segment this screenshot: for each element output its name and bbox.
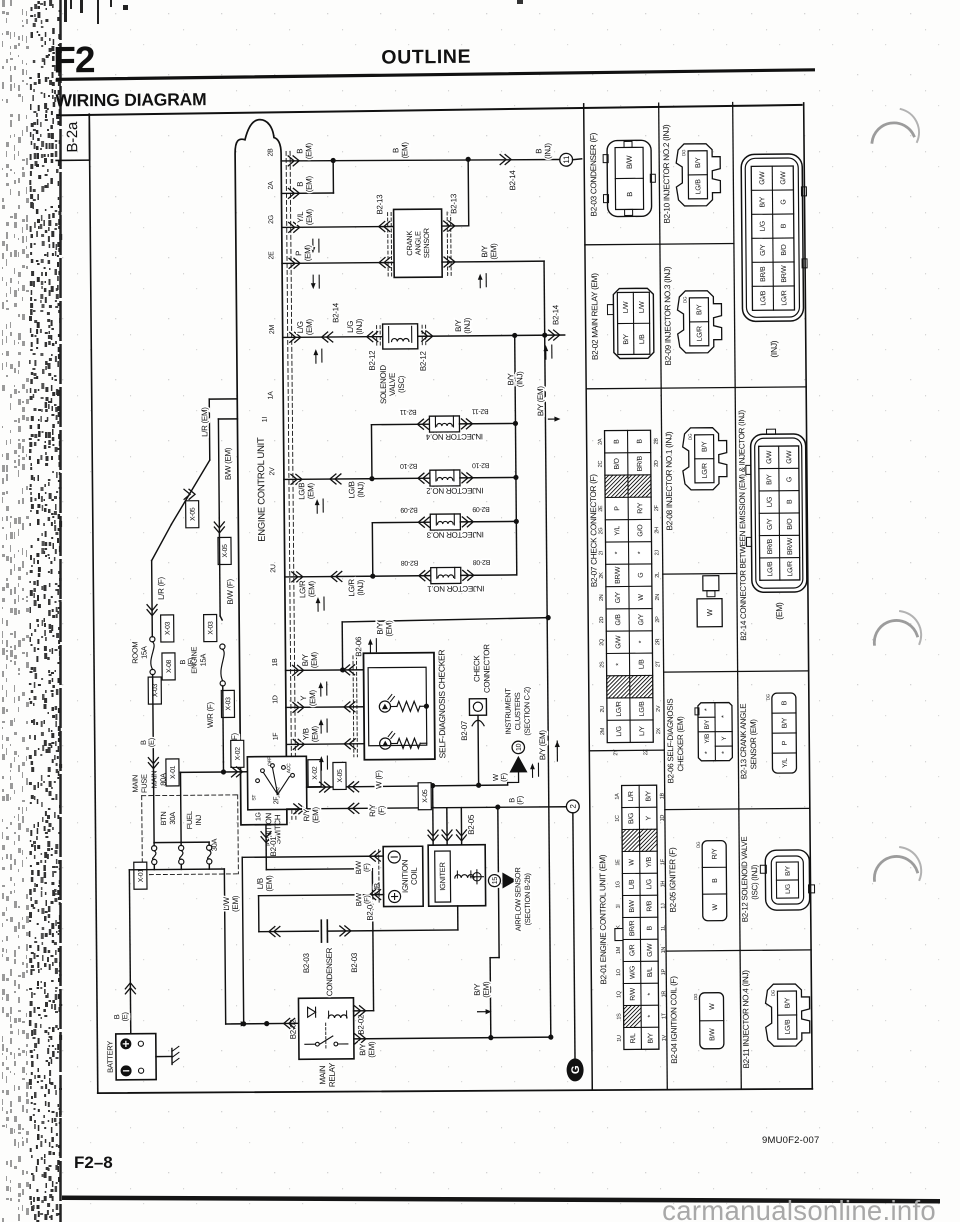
scan curl top right (872, 123, 914, 143)
wire into ignition switch (222, 762, 224, 772)
fuse ENGINE 15A (204, 615, 217, 642)
svg-text:R/Y: R/Y (712, 848, 719, 859)
svg-text:(INJ): (INJ) (543, 143, 552, 160)
resistor 1 (397, 701, 420, 711)
svg-text:MAIN: MAIN (131, 775, 140, 793)
legend big connector INJ (741, 154, 803, 322)
svg-text:B/Y (EM): B/Y (EM) (536, 386, 545, 417)
svg-text:(INJ): (INJ) (769, 340, 779, 357)
svg-text:CONNECTOR: CONNECTOR (482, 644, 491, 693)
svg-text:INJ: INJ (194, 814, 203, 825)
connector B2-13 left (387, 213, 390, 277)
svg-text:B/Y: B/Y (358, 1043, 367, 1056)
svg-text:(SECTION B-2b): (SECTION B-2b) (523, 872, 532, 925)
svg-text:1B: 1B (660, 792, 666, 799)
svg-text:X-05: X-05 (337, 769, 344, 783)
svg-text:B/O: B/O (614, 458, 621, 470)
svg-text:G/Y: G/Y (615, 591, 622, 603)
svg-text:1H: 1H (660, 881, 666, 888)
svg-text:(EM): (EM) (305, 318, 314, 335)
svg-text:FUEL: FUEL (185, 811, 194, 829)
self-diagnosis checker box (363, 653, 434, 760)
svg-text:B/Y: B/Y (702, 441, 709, 452)
svg-text:(INJ): (INJ) (463, 317, 472, 334)
svg-text:DG: DG (688, 433, 693, 440)
svg-text:CHECKER (EM): CHECKER (EM) (676, 716, 685, 772)
svg-text:DG: DG (681, 149, 686, 156)
svg-text:ST: ST (251, 795, 257, 801)
fuse bus wires (154, 841, 209, 843)
svg-text:B2-13: B2-13 (449, 193, 458, 214)
svg-text:(EM): (EM) (310, 725, 319, 742)
svg-text:W: W (638, 594, 645, 601)
wire bus B/Y(EM) right side (544, 261, 551, 1037)
fuse ROOM 15A (161, 615, 174, 642)
svg-text:2N: 2N (655, 594, 661, 601)
svg-text:G/W: G/W (759, 171, 766, 185)
svg-text:FUSE: FUSE (140, 774, 149, 793)
svg-text:1U: 1U (617, 1035, 623, 1042)
svg-text:1C: 1C (615, 815, 621, 822)
wire B/Y(EM) riser to top (341, 622, 343, 670)
svg-text:X-03: X-03 (208, 621, 215, 635)
wire B/Y(EM) from relay up (489, 958, 492, 1038)
svg-text:X-05: X-05 (422, 789, 429, 803)
LED 1 (379, 701, 390, 712)
svg-text:(E): (E) (147, 737, 156, 747)
wire 2E P(EM) (282, 261, 394, 264)
main relay (298, 998, 354, 1059)
svg-text:G/W: G/W (766, 450, 773, 464)
svg-text:1N: 1N (661, 947, 667, 954)
svg-text:(F): (F) (362, 863, 371, 873)
svg-text:1L: 1L (661, 925, 667, 931)
svg-text:L/B: L/B (639, 659, 646, 669)
svg-text:2G: 2G (268, 215, 275, 224)
svg-text:L/G: L/G (646, 879, 653, 889)
svg-text:B2-03: B2-03 (302, 952, 311, 973)
svg-text:B/Y: B/Y (782, 717, 789, 728)
svg-text:CLUSTERS: CLUSTERS (513, 692, 522, 730)
svg-text:L/B: L/B (256, 878, 265, 889)
wire W(F) from switch (307, 785, 508, 787)
injector no.4 (371, 423, 429, 426)
svg-text:B/W: B/W (709, 1028, 716, 1041)
svg-text:B2-11: B2-11 (400, 408, 417, 415)
svg-text:OUTLINE: OUTLINE (381, 46, 471, 69)
ECU connector dashed edge (286, 151, 292, 819)
svg-text:B2-07: B2-07 (460, 720, 469, 741)
wire igniter to condenser (457, 906, 459, 930)
svg-text:2D: 2D (599, 617, 605, 624)
svg-text:B: B (295, 149, 304, 154)
svg-text:(EM): (EM) (265, 875, 274, 892)
svg-text:B/Y: B/Y (301, 653, 310, 666)
svg-text:BR/W: BR/W (787, 537, 794, 555)
svg-text:L/B: L/B (639, 334, 646, 344)
svg-text:2Y: 2Y (613, 749, 619, 756)
svg-text:B/O: B/O (787, 518, 794, 530)
battery (116, 1034, 156, 1080)
svg-text:LG/B: LG/B (639, 701, 646, 716)
svg-text:1P: 1P (661, 968, 667, 975)
svg-text:LG/R: LG/R (616, 701, 623, 716)
svg-text:(INJ): (INJ) (356, 579, 365, 596)
svg-text:B: B (787, 499, 794, 504)
connector B2-04 (378, 850, 380, 903)
svg-text:L/W: L/W (639, 301, 646, 313)
svg-text:B2-14: B2-14 (331, 302, 340, 323)
resistor 2 (397, 738, 420, 748)
scan curl bottom right (874, 856, 917, 880)
svg-text:OFF: OFF (267, 757, 273, 766)
svg-text:(EM): (EM) (303, 244, 312, 261)
svg-text:B2-09: B2-09 (472, 505, 490, 512)
diagram frame right border (804, 103, 813, 1089)
svg-text:G/B: G/B (615, 614, 622, 626)
svg-text:L/B: L/B (629, 879, 636, 889)
svg-text:(EM): (EM) (308, 689, 317, 706)
svg-text:15A: 15A (139, 646, 148, 659)
svg-text:B2-08: B2-08 (473, 558, 491, 565)
svg-text:11: 11 (562, 155, 571, 164)
svg-text:B2-02 MAIN RELAY (EM): B2-02 MAIN RELAY (EM) (590, 273, 600, 360)
svg-text:(F): (F) (377, 805, 386, 815)
wire 2F R/Y (287, 806, 567, 809)
svg-text:L/G: L/G (767, 497, 774, 507)
svg-text:W: W (629, 859, 636, 866)
svg-text:R/W: R/W (630, 987, 637, 1000)
connector B2-06 (352, 656, 355, 757)
svg-text:COIL: COIL (410, 867, 419, 885)
svg-text:B/O: B/O (781, 244, 788, 256)
svg-text:L/R (EM): L/R (EM) (200, 407, 209, 437)
svg-text:B2-12: B2-12 (419, 350, 428, 371)
svg-text:B/Y: B/Y (480, 245, 489, 258)
svg-text:2B: 2B (267, 148, 274, 157)
svg-text:INJECTOR NO.1: INJECTOR NO.1 (427, 584, 485, 594)
svg-text:B2-07 CHECK CONNECTOR (F): B2-07 CHECK CONNECTOR (F) (589, 474, 599, 588)
svg-text:BR/R: BR/R (629, 920, 636, 936)
wire L/W(EM) to main relay (224, 869, 225, 1024)
connector B2-14 right (549, 330, 560, 340)
wire joint2 to ground (573, 813, 575, 1059)
svg-text:B2-14: B2-14 (508, 170, 517, 191)
svg-text:BR/W: BR/W (615, 566, 622, 584)
svg-text:B: B (647, 925, 654, 930)
svg-text:(EM): (EM) (231, 895, 240, 912)
svg-text:30A: 30A (168, 812, 177, 825)
svg-text:B2-10: B2-10 (472, 461, 490, 468)
svg-text:IGNITION: IGNITION (401, 859, 410, 893)
check connector (469, 699, 486, 716)
svg-text:BR/W: BR/W (781, 265, 788, 283)
B2-06 connector table (698, 703, 733, 761)
svg-text:L/G: L/G (296, 321, 305, 333)
svg-text:L/G: L/G (346, 321, 355, 333)
svg-text:2S: 2S (599, 661, 605, 668)
svg-text:Y/B: Y/B (301, 728, 310, 740)
svg-text:B-2a: B-2a (64, 121, 81, 153)
svg-text:L/G: L/G (785, 884, 792, 894)
igniter feeds (432, 786, 435, 845)
connector B2-13 right (446, 212, 449, 276)
svg-text:B: B (712, 878, 719, 883)
svg-text:P: P (614, 506, 621, 511)
svg-text:G: G (786, 477, 793, 482)
svg-text:B2-02: B2-02 (356, 1014, 365, 1035)
svg-text:15A: 15A (199, 654, 208, 667)
svg-text:G/W: G/W (786, 450, 793, 464)
svg-text:(EM): (EM) (400, 142, 409, 159)
wire 2M L/G (283, 335, 565, 337)
svg-text:WIRING DIAGRAM: WIRING DIAGRAM (56, 89, 207, 110)
svg-text:INJECTOR NO.2: INJECTOR NO.2 (426, 486, 484, 496)
svg-text:2X: 2X (656, 727, 662, 734)
svg-text:LG/B: LG/B (347, 481, 356, 498)
svg-text:B/Y: B/Y (506, 372, 515, 385)
connector X-05 on B/W (218, 537, 231, 564)
svg-text:B/Y: B/Y (704, 719, 711, 730)
injector no.3 (372, 521, 430, 524)
wire 1D Y(EM) (286, 706, 368, 709)
fuse MAIN 80A (152, 846, 157, 851)
svg-text:BR/B: BR/B (767, 538, 774, 554)
ignition switch (247, 756, 306, 810)
svg-text:B/Y: B/Y (759, 196, 766, 207)
svg-text:9MU0F2-007: 9MU0F2-007 (762, 1135, 819, 1146)
svg-text:BR/B: BR/B (760, 266, 767, 282)
svg-text:2V: 2V (656, 705, 662, 712)
svg-text:Y/L: Y/L (614, 526, 621, 536)
svg-text:B/Y (EM): B/Y (EM) (538, 730, 547, 761)
svg-text:G: G (780, 199, 787, 204)
svg-text:B/Y: B/Y (766, 474, 773, 485)
svg-text:B/Y: B/Y (473, 983, 482, 996)
wire 1I B/W(EM) (218, 418, 237, 420)
svg-text:B/W (EM): B/W (EM) (223, 447, 232, 480)
svg-text:Y/L: Y/L (296, 211, 305, 223)
svg-text:(EM): (EM) (310, 651, 319, 668)
svg-text:2B: 2B (654, 438, 660, 445)
svg-text:1I: 1I (262, 417, 269, 423)
svg-text:B/Y: B/Y (785, 865, 792, 876)
svg-text:1J: 1J (661, 903, 667, 909)
svg-text:1T: 1T (662, 1012, 668, 1019)
svg-text:B/Y: B/Y (695, 157, 702, 168)
svg-text:B2-08: B2-08 (401, 559, 419, 566)
svg-text:L/R: L/R (628, 791, 635, 801)
wire junction riser 2A-2B (332, 161, 334, 193)
scan curl mid right (874, 620, 917, 644)
igniter box (428, 845, 486, 906)
svg-text:(EM): (EM) (384, 620, 393, 637)
svg-text:(F): (F) (499, 772, 508, 782)
svg-text:Y/L: Y/L (782, 758, 789, 768)
scan artifact stripes left margin (2, 0, 62, 1222)
svg-text:P: P (782, 740, 789, 745)
svg-text:(INJ): (INJ) (515, 371, 524, 388)
svg-text:B2-10 INJECTOR NO.2 (INJ): B2-10 INJECTOR NO.2 (INJ) (662, 124, 672, 223)
svg-text:LG/R: LG/R (781, 290, 788, 305)
svg-text:(EM): (EM) (304, 142, 313, 159)
svg-text:B/L: B/L (647, 967, 654, 977)
svg-text:INJECTOR NO.4: INJECTOR NO.4 (425, 432, 483, 442)
svg-text:2N: 2N (599, 594, 605, 601)
svg-text:MAIN: MAIN (150, 771, 159, 789)
svg-text:SELF-DIAGNOSIS CHECKER: SELF-DIAGNOSIS CHECKER (436, 650, 447, 759)
joint circle 11 (560, 153, 573, 166)
svg-text:B/Y: B/Y (454, 319, 463, 332)
svg-text:B: B (614, 439, 621, 444)
svg-text:B2-03: B2-03 (350, 952, 359, 973)
svg-text:B2-03 CONDENSER (F): B2-03 CONDENSER (F) (589, 132, 599, 216)
svg-text:1A: 1A (615, 793, 621, 800)
wire B(F) to joint 2 (495, 804, 500, 809)
diagram frame bottom border (98, 1087, 812, 1095)
svg-text:W (F): W (F) (374, 770, 383, 789)
svg-text:B/W (F): B/W (F) (226, 579, 235, 605)
instrument clusters ref (512, 741, 525, 754)
svg-text:B/Y: B/Y (375, 622, 384, 635)
svg-text:(EM): (EM) (482, 981, 491, 998)
wire battery to relay (226, 1022, 299, 1025)
svg-text:LG/B: LG/B (785, 1019, 792, 1034)
svg-text:(F): (F) (515, 795, 524, 805)
wire check connector down (477, 715, 480, 785)
svg-text:1G: 1G (615, 881, 621, 888)
svg-text:(SECTION C-2): (SECTION C-2) (522, 686, 531, 735)
wire BTN to ignition switch (179, 772, 182, 842)
svg-text:B/Y: B/Y (696, 304, 703, 315)
svg-text:INJECTOR NO.3: INJECTOR NO.3 (426, 530, 484, 540)
svg-text:DG: DG (682, 296, 687, 303)
svg-text:DG: DG (696, 841, 701, 848)
svg-text:1R: 1R (661, 991, 667, 998)
ground blob G (567, 1058, 584, 1081)
svg-text:P: P (294, 251, 303, 256)
svg-text:CHECK: CHECK (472, 655, 481, 683)
svg-text:(ISC) (INJ): (ISC) (INJ) (750, 864, 759, 900)
svg-text:2T: 2T (655, 660, 661, 667)
LED 2 (380, 738, 391, 749)
diagram frame left border (89, 115, 98, 1093)
svg-text:B/W: B/W (629, 900, 636, 913)
svg-text:B: B (296, 182, 305, 187)
svg-text:LG/B: LG/B (760, 290, 767, 305)
svg-text:B2-09: B2-09 (400, 506, 418, 513)
legend big connector EM (751, 434, 807, 592)
condenser (259, 930, 318, 933)
svg-text:2E: 2E (598, 505, 604, 512)
legend B2-07 plug drawing (703, 576, 719, 591)
svg-text:VALVE: VALVE (388, 373, 397, 396)
svg-text:2G: 2G (598, 528, 604, 535)
svg-text:B/Y: B/Y (623, 334, 630, 345)
svg-text:B: B (625, 192, 634, 197)
svg-text:(EM): (EM) (489, 243, 498, 260)
svg-text:1Q: 1Q (616, 990, 622, 998)
svg-text:B: B (391, 148, 400, 153)
svg-text:F2–8: F2–8 (74, 1153, 113, 1172)
svg-text:RELAY: RELAY (328, 1062, 337, 1087)
svg-text:B2-13 CRANK ANGLE: B2-13 CRANK ANGLE (739, 704, 749, 779)
svg-text:CONDENSER: CONDENSER (325, 947, 334, 996)
svg-text:LG/R: LG/R (298, 580, 307, 598)
svg-text:X-02: X-02 (235, 747, 242, 761)
svg-text:B2-08 INJECTOR NO.1 (INJ): B2-08 INJECTOR NO.1 (INJ) (664, 431, 674, 530)
header rule thick (57, 70, 813, 80)
injector no.1 (419, 571, 430, 581)
svg-text:DG: DG (765, 693, 770, 700)
ECU pin table (622, 785, 659, 1049)
svg-text:2D: 2D (654, 460, 660, 467)
svg-text:B2-05 IGNITER (F): B2-05 IGNITER (F) (668, 847, 678, 913)
svg-text:B2-06: B2-06 (354, 636, 363, 657)
wire B/Y(EM) from crank sensor (442, 260, 544, 263)
svg-text:B/Y: B/Y (784, 997, 791, 1008)
svg-text:ENGINE CONTROL UNIT: ENGINE CONTROL UNIT (256, 437, 268, 542)
svg-text:LG/R: LG/R (702, 463, 709, 478)
svg-text:carmanualsonline.info: carmanualsonline.info (662, 1195, 936, 1222)
svg-text:R/Y: R/Y (368, 803, 377, 816)
svg-text:BTN: BTN (159, 811, 168, 825)
svg-text:B2-05: B2-05 (467, 814, 476, 835)
wire crank sensor to B(EM) node (442, 225, 469, 227)
svg-text:2F: 2F (654, 504, 660, 511)
svg-text:G/W: G/W (780, 171, 787, 185)
bottom scan band (62, 1196, 940, 1204)
svg-text:(EM): (EM) (367, 1041, 376, 1058)
wire feed risers to injectors (370, 425, 372, 479)
svg-text:1G: 1G (255, 812, 262, 821)
svg-text:Y/B: Y/B (704, 734, 711, 744)
svg-text:AIRFLOW SENSOR: AIRFLOW SENSOR (513, 867, 523, 932)
svg-text:L/G: L/G (760, 221, 767, 231)
svg-text:R/L: R/L (630, 1033, 637, 1043)
svg-text:Y/B: Y/B (646, 856, 653, 867)
wire 1A L/R(EM) (209, 398, 237, 400)
svg-text:G/Y: G/Y (760, 244, 767, 256)
svg-text:1S: 1S (617, 1013, 623, 1020)
svg-text:LG/B: LG/B (767, 561, 774, 576)
svg-text:ENGINE: ENGINE (189, 646, 198, 673)
svg-text:SENSOR: SENSOR (422, 227, 431, 258)
svg-text:BATTERY: BATTERY (105, 1041, 114, 1073)
svg-text:X-05: X-05 (190, 507, 197, 521)
wire 2U LG/R (285, 576, 431, 577)
svg-text:ACC: ACC (286, 763, 292, 773)
svg-text:B2-11: B2-11 (472, 407, 489, 414)
svg-text:R/B: R/B (646, 900, 653, 911)
ECU connector bracket (235, 119, 287, 824)
svg-text:1D: 1D (660, 815, 666, 822)
crank angle sensor box (394, 209, 443, 277)
top edge registration marks (64, 0, 523, 24)
svg-text:B/Y: B/Y (645, 790, 652, 801)
svg-text:1F: 1F (660, 858, 666, 865)
wire L/B(EM) ECU to relay (265, 825, 267, 870)
svg-text:W: W (709, 1003, 716, 1010)
ground at battery (156, 1055, 172, 1057)
svg-text:B2-04 IGNITION COIL (F): B2-04 IGNITION COIL (F) (669, 976, 679, 1064)
svg-text:G/Y: G/Y (638, 614, 645, 626)
svg-text:G: G (570, 1066, 582, 1074)
svg-text:1A: 1A (268, 391, 275, 400)
connector X-05 on L/R (171, 460, 211, 524)
svg-text:B2-01 ENGINE CONTROL UNIT (EM): B2-01 ENGINE CONTROL UNIT (EM) (598, 854, 608, 984)
svg-text:SOLENOID: SOLENOID (379, 365, 388, 405)
